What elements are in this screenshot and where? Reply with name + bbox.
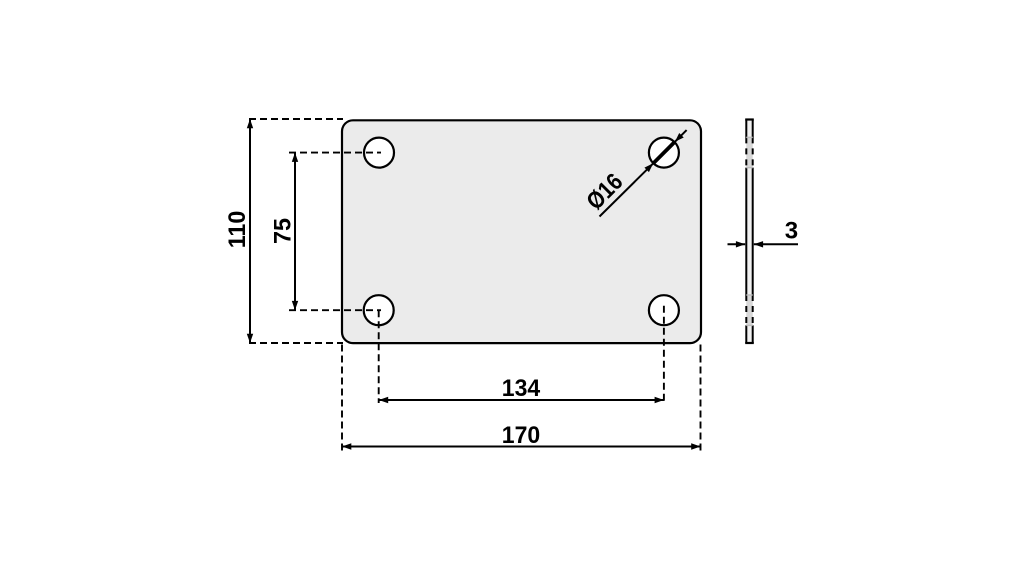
hole bottom-right bbox=[649, 295, 679, 325]
svg-text:75: 75 bbox=[270, 218, 297, 244]
center line horizontal through top-left hole bbox=[289, 152, 381, 154]
center line vertical below bottom-left hole (extension for 134) bbox=[378, 310, 380, 403]
hole top-right bbox=[649, 138, 679, 168]
center line vertical below bottom-right hole (extension for 134) bbox=[663, 306, 665, 403]
side view hidden hole edges left (dashed) bbox=[745, 137, 747, 325]
extension line right for dimension 170 bbox=[700, 345, 702, 453]
hole top-left bbox=[364, 138, 394, 168]
side view plate body bbox=[746, 120, 752, 344]
extension line bottom for dimension 110 bbox=[249, 342, 343, 344]
dimension line 75 (hole spacing vertical) bbox=[294, 153, 296, 311]
svg-text:170: 170 bbox=[502, 422, 540, 449]
side view hole region top (hidden) bbox=[746, 137, 752, 167]
leader line for hole diameter Ø16 bbox=[600, 163, 654, 216]
svg-text:134: 134 bbox=[502, 375, 541, 402]
svg-text:3: 3 bbox=[785, 218, 798, 245]
extension line left for dimension 170 bbox=[341, 345, 343, 453]
leader tail with arrow outside top-right hole bbox=[675, 130, 687, 142]
dimension line 170 (overall width) bbox=[342, 446, 701, 448]
dimension line 134 (hole spacing horizontal) bbox=[379, 399, 664, 401]
diameter line across top-right hole bbox=[653, 142, 674, 163]
side view top edge bbox=[745, 118, 754, 120]
side view hole region bottom (hidden) bbox=[746, 295, 752, 325]
side view left edge solid segments bbox=[745, 120, 747, 344]
extension line top for dimension 110 bbox=[249, 118, 343, 120]
side view bottom edge bbox=[745, 342, 754, 344]
side view hole boundary lines (light) bbox=[746, 137, 752, 325]
side view right edge solid segments bbox=[752, 120, 754, 344]
dimension line 110 (overall height) bbox=[249, 119, 251, 343]
svg-text:110: 110 bbox=[224, 211, 251, 249]
center line horizontal through bottom-left hole bbox=[289, 309, 381, 311]
plate front view (rounded rectangle body) bbox=[342, 120, 701, 343]
dimension 3 right arrow line bbox=[754, 243, 798, 245]
hole bottom-left bbox=[364, 295, 394, 325]
dimension 3 left arrow line bbox=[728, 243, 746, 245]
side view hidden hole edges right (dashed) bbox=[752, 137, 754, 325]
